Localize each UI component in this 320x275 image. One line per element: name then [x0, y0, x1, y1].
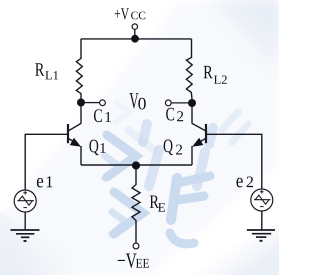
label -VEE — [118, 254, 149, 268]
ground right — [247, 230, 275, 241]
wire e1 to ground — [24, 212, 26, 230]
wire e2 to ground — [261, 211, 263, 230]
junction top rail node — [131, 35, 139, 43]
junction C1 node — [77, 99, 85, 107]
resistor RE — [132, 169, 140, 243]
label V0 — [129, 93, 145, 109]
label +VCC — [115, 8, 146, 19]
wire C2 stub — [171, 102, 188, 104]
label RL2 — [204, 66, 227, 84]
wire Q1 collector — [80, 107, 82, 124]
source e1 — [14, 190, 36, 212]
transistor Q2 — [192, 123, 206, 146]
junction emitter node — [132, 161, 140, 169]
wire Q2 collector — [191, 107, 193, 124]
wire Q2 base — [207, 134, 262, 189]
transistor Q1 — [68, 123, 81, 146]
terminal C1 — [100, 100, 106, 106]
source e2 — [251, 189, 273, 211]
wire Q1 emitter — [80, 146, 82, 165]
junction C2 node — [188, 99, 196, 107]
label C2 — [166, 108, 183, 121]
terminal -VEE — [133, 243, 139, 249]
label e2 — [236, 177, 253, 188]
wire C1 stub — [85, 102, 100, 104]
label Q1 — [89, 140, 105, 156]
resistor RL2 — [186, 39, 192, 99]
ground left — [11, 230, 40, 241]
label C1 — [94, 109, 111, 122]
resistor RL1 — [76, 39, 82, 99]
label RE — [150, 195, 165, 211]
terminal C2 — [165, 100, 171, 106]
power +VCC terminal — [132, 24, 137, 37]
wire top rail — [81, 38, 192, 40]
label e1 — [37, 176, 53, 187]
label RL1 — [35, 63, 58, 79]
wire Q1 base — [25, 134, 67, 190]
label Q2 — [164, 140, 182, 156]
wire Q2 emitter — [191, 146, 193, 165]
wire bottom rail — [81, 164, 192, 166]
